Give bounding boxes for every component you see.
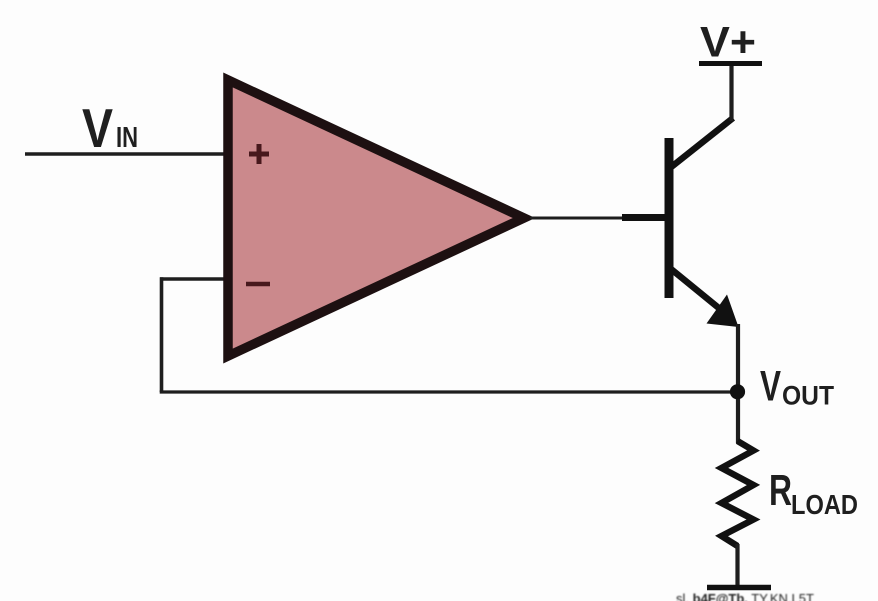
transistor Q1 base bar: [665, 138, 674, 298]
wire: op-amp output to transistor base: [530, 217, 626, 220]
op-amp U1: [228, 80, 524, 356]
svg-text:IN: IN: [116, 122, 138, 154]
wire: resistor to ground: [735, 544, 739, 587]
wire: VIN input to op-amp + input: [25, 152, 228, 156]
wire: emitter to VOUT node: [736, 324, 740, 443]
op-amp + input symbol: [249, 144, 269, 164]
svg-text:R: R: [769, 466, 792, 515]
op-amp - input symbol: [246, 282, 270, 287]
wire: collector to V+: [729, 62, 733, 121]
wire: feedback horizontal segment to VOUT node: [160, 390, 737, 393]
transistor Q1 emitter arrowhead: [707, 295, 739, 328]
ground: [707, 585, 771, 591]
svg-text:V: V: [760, 363, 781, 411]
wire: inverting input stub: [160, 277, 228, 281]
resistor RLOAD zigzag: [722, 441, 754, 546]
power V+ rail bar: [699, 61, 762, 66]
svg-text:V: V: [82, 97, 113, 159]
node VOUT junction dot: [730, 384, 745, 399]
transistor Q1 emitter lead: [671, 269, 720, 309]
wire: feedback vertical segment: [160, 277, 164, 392]
svg-text:sl. b4F@Tb. TY.KN.L5T: sl. b4F@Tb. TY.KN.L5T: [676, 591, 814, 601]
transistor Q1 collector lead: [670, 118, 733, 168]
svg-text:LOAD: LOAD: [791, 489, 858, 520]
svg-text:V+: V+: [700, 19, 756, 67]
svg-text:OUT: OUT: [782, 381, 834, 411]
transistor Q1 base lead (thick): [622, 214, 666, 221]
